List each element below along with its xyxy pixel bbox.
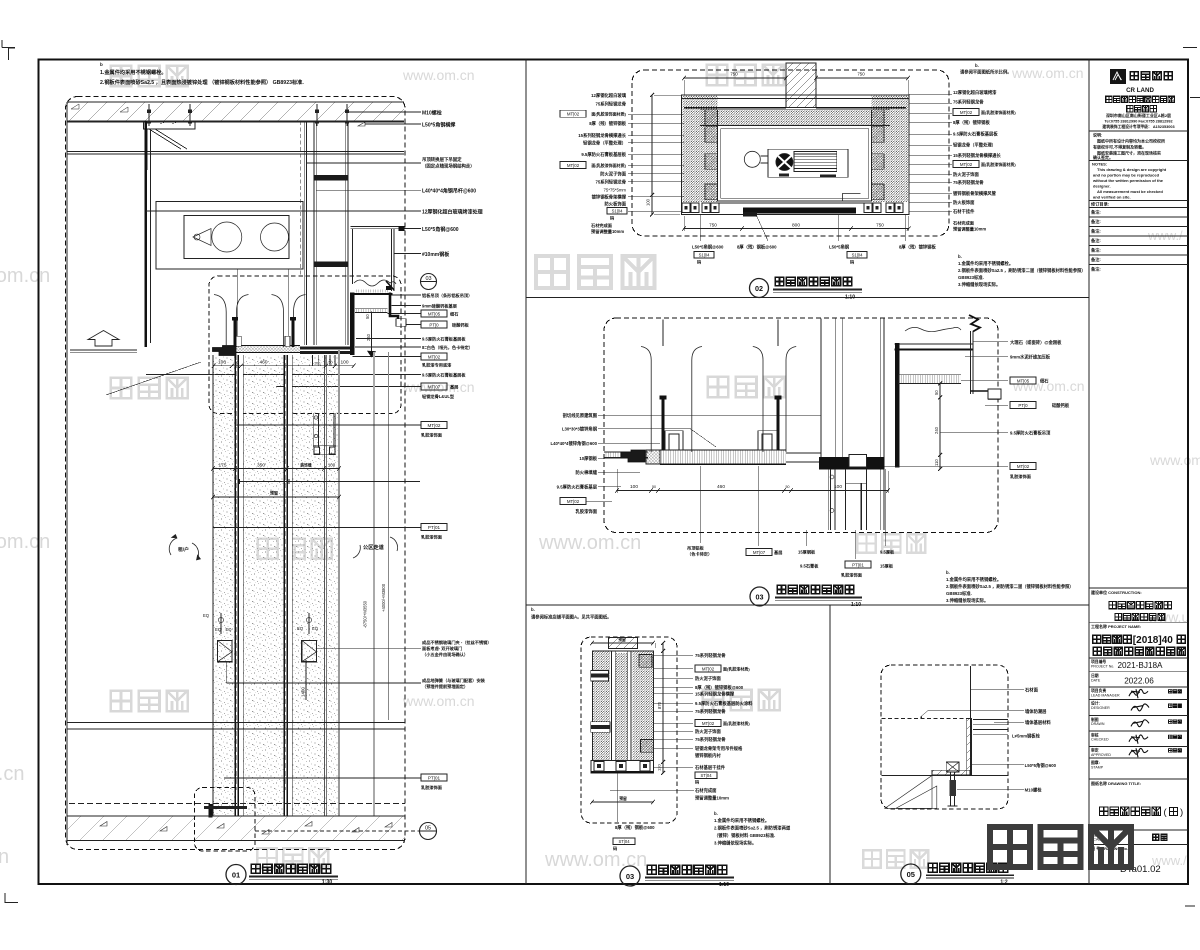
svg-text:确认签定。: 确认签定。 — [1093, 154, 1113, 160]
svg-text:50: 50 — [365, 314, 370, 319]
detail02 left leaders — [628, 113, 684, 115]
detail03m break glyph — [969, 315, 980, 332]
detail01 dim 1400 — [305, 660, 307, 700]
detail02 bottom band right boxes — [864, 203, 872, 213]
detail03m bottom labels — [699, 466, 701, 543]
svg-text:01: 01 — [232, 871, 240, 880]
svg-text:有版权许可,不得复制及转载。: 有版权许可,不得复制及转载。 — [1093, 144, 1146, 150]
svg-text:75*75*5mm: 75*75*5mm — [604, 188, 627, 193]
svg-text:03: 03 — [626, 872, 634, 881]
svg-text:日期: 日期 — [1091, 673, 1099, 678]
svg-text:S1|04: S1|04 — [852, 253, 864, 258]
svg-text:750: 750 — [709, 222, 717, 227]
svg-text:PT|01: PT|01 — [428, 525, 441, 530]
detail02 right leaders — [909, 93, 952, 95]
detail02 left wall — [683, 95, 718, 202]
svg-text:www.om.cn: www.om.cn — [402, 693, 475, 709]
svg-text:www.om.cn: www.om.cn — [1011, 65, 1084, 81]
detail03m bulkhead right step — [970, 331, 972, 394]
svg-text:03: 03 — [425, 276, 431, 282]
svg-text:1:10: 1:10 — [851, 602, 861, 608]
layout divider horizontal 2 — [526, 604, 1089, 606]
svg-text:100: 100 — [218, 360, 226, 366]
svg-text:防火泥子饰面: 防火泥子饰面 — [695, 728, 721, 735]
svg-text:（小五金件由现场确认）: （小五金件由现场确认） — [422, 651, 468, 658]
svg-text:750: 750 — [857, 72, 865, 77]
detail03m hanger rods upper — [662, 320, 664, 347]
svg-text:b.: b. — [946, 570, 950, 575]
svg-text:图章:: 图章: — [1091, 760, 1100, 765]
svg-text:1.金属件均采用不锈钢螺栓。: 1.金属件均采用不锈钢螺栓。 — [714, 817, 769, 824]
svg-text:防火泥子饰面: 防火泥子饰面 — [953, 171, 979, 178]
svg-text:S1|04: S1|04 — [699, 253, 711, 258]
svg-text:图纸中所有设计内容均为本公司校权所: 图纸中所有设计内容均为本公司校权所 — [1097, 138, 1165, 144]
detail05 leader stone face — [971, 689, 1024, 691]
svg-text:9.5厚防火石膏板基层板: 9.5厚防火石膏板基层板 — [953, 131, 998, 138]
detail01 label L50 brace — [358, 122, 365, 126]
company name beijing — [1106, 96, 1112, 102]
detail02 bottom band left boxes — [682, 203, 690, 213]
svg-text:240: 240 — [366, 333, 371, 341]
svg-text:2.钢板件表面喷砂Sa2.5 ，刷防锈漆二道（镀锌钢板材料性: 2.钢板件表面喷砂Sa2.5 ，刷防锈漆二道（镀锌钢板材料性能参照） — [958, 267, 1086, 274]
svg-text:PT|01: PT|01 — [852, 562, 864, 567]
svg-text:硅酸钙板: 硅酸钙板 — [1052, 402, 1070, 409]
detail01 ceiling void lines — [67, 151, 404, 153]
svg-text:1:10: 1:10 — [845, 295, 855, 301]
svg-text:防火板饰面: 防火板饰面 — [953, 199, 975, 206]
svg-text:2022.06: 2022.06 — [1124, 677, 1154, 686]
svg-text:轻钢龙骨（平整处理）: 轻钢龙骨（平整处理） — [583, 140, 626, 147]
detail03m band left cap — [621, 450, 645, 462]
svg-text:50: 50 — [235, 361, 239, 365]
svg-text:APPROVED: APPROVED — [1091, 753, 1111, 757]
detail01 tick strip 50 — [355, 309, 388, 313]
detail01 wall main vertical — [145, 121, 147, 347]
svg-text:MT|02: MT|02 — [702, 666, 715, 671]
svg-text:350: 350 — [257, 462, 265, 468]
detail01 dim reserved — [213, 496, 339, 498]
detail01 M10 hanger bolts — [148, 104, 150, 126]
svg-text:石材干挂件: 石材干挂件 — [952, 208, 975, 215]
svg-text:1:30: 1:30 — [322, 880, 332, 886]
detail03m bulkhead top lines — [895, 343, 974, 345]
svg-text:9.5石膏板: 9.5石膏板 — [800, 563, 819, 570]
svg-text:www.om.cn: www.om.cn — [544, 849, 647, 871]
svg-text:制图: 制图 — [1091, 717, 1099, 722]
detail03b left brackets — [591, 671, 609, 682]
svg-text:100: 100 — [834, 484, 842, 490]
watermark row1 — [111, 66, 132, 87]
detail03m title — [750, 587, 769, 606]
detail01 cove curve pair 1 — [214, 295, 226, 348]
svg-text:PT|01: PT|01 — [428, 775, 441, 780]
svg-text:石材完成面: 石材完成面 — [952, 220, 975, 227]
svg-text:100: 100 — [328, 462, 336, 467]
detail02 bottom labels — [699, 215, 701, 242]
svg-text:装饰缝: 装饰缝 — [299, 462, 312, 467]
svg-text:镀锌钢板骨架横撑风管: 镀锌钢板骨架横撑风管 — [953, 190, 997, 197]
svg-text:MT|07: MT|07 — [753, 550, 766, 555]
svg-text:NOTES:: NOTES: — [1092, 162, 1107, 167]
svg-text:12厚钢化超白玻璃烤漆处理: 12厚钢化超白玻璃烤漆处理 — [422, 209, 483, 216]
svg-text:PROJECT No.: PROJECT No. — [1091, 665, 1114, 669]
svg-text:and no portion may be reproduc: and no portion may be reproduced — [1093, 173, 1160, 178]
svg-text:75系列轻钢龙骨: 75系列轻钢龙骨 — [695, 652, 726, 659]
svg-text:PT|0: PT|0 — [1018, 403, 1028, 408]
svg-text:1.金属件均采用不锈钢螺栓。: 1.金属件均采用不锈钢螺栓。 — [958, 260, 1013, 267]
drawing number row — [1089, 844, 1188, 846]
svg-text:8厚（残）镀锌钢板: 8厚（残）镀锌钢板 — [589, 120, 626, 127]
detail05 title — [901, 864, 921, 884]
detail01 balloon 05 leader — [255, 830, 420, 832]
detail03m bulkhead vertical dark — [895, 343, 900, 468]
svg-text:面(乳胶漆材质): 面(乳胶漆材质) — [723, 720, 750, 726]
detail01 corridor rotation symbol — [353, 545, 360, 558]
detail05 M10 label — [957, 788, 1024, 790]
svg-text:防火棉填缝: 防火棉填缝 — [576, 469, 598, 476]
detail01 glazing base shoe — [209, 804, 213, 818]
detail03m vertical dim — [939, 384, 941, 470]
svg-text:面(乳胶漆饰面材质): 面(乳胶漆饰面材质) — [591, 162, 626, 168]
svg-text:b.: b. — [714, 811, 718, 816]
detail03b stone leader — [610, 789, 694, 791]
svg-text:75系列轻钢龙骨: 75系列轻钢龙骨 — [953, 179, 984, 186]
svg-text:L40*40*4镀锌角钢@600: L40*40*4镀锌角钢@600 — [551, 440, 598, 447]
svg-text:乳胶漆饰面: 乳胶漆饰面 — [421, 784, 443, 791]
svg-text:15厚板: 15厚板 — [880, 563, 894, 570]
detail01 callout boundary dashed — [66, 97, 406, 850]
svg-text:项目负责: 项目负责 — [1091, 688, 1106, 693]
svg-text:EQ: EQ — [203, 613, 210, 618]
svg-text:02: 02 — [755, 284, 763, 293]
svg-text:预留: 预留 — [270, 490, 278, 496]
detail01 return staircase profile — [390, 293, 405, 325]
detail01 title — [226, 865, 246, 885]
svg-text:www./: www./ — [1147, 228, 1183, 243]
svg-text:All measurement must be checke: All measurement must be checked — [1097, 189, 1163, 194]
svg-text:DESIGNER: DESIGNER — [1091, 706, 1110, 710]
signature rows — [1089, 686, 1188, 688]
svg-text:1:10: 1:10 — [719, 882, 729, 888]
svg-text:公区走道: 公区走道 — [363, 543, 385, 551]
svg-text:基层: 基层 — [449, 383, 459, 390]
svg-text:MT|02: MT|02 — [702, 721, 715, 726]
svg-text:剖切线见原建筑图: 剖切线见原建筑图 — [563, 412, 598, 419]
svg-text:STAMP: STAMP — [1091, 766, 1104, 770]
svg-text:LEAD MANAGER: LEAD MANAGER — [1091, 694, 1120, 698]
detail02 inner room — [718, 126, 872, 202]
svg-text:b.: b. — [958, 254, 962, 259]
svg-text:石材基层干挂件: 石材基层干挂件 — [694, 764, 726, 771]
svg-text:460: 460 — [717, 484, 725, 490]
svg-text:乳胶漆饰面: 乳胶漆饰面 — [841, 572, 863, 579]
svg-text:面(乳胶漆材质): 面(乳胶漆材质) — [723, 665, 750, 671]
detail01 concrete column stipple — [213, 355, 339, 816]
detail01 door head track — [312, 413, 314, 447]
svg-text:L50*5角钢@600: L50*5角钢@600 — [692, 244, 724, 251]
svg-text:CR LAND: CR LAND — [1126, 87, 1154, 94]
detail03m column — [820, 319, 822, 457]
detail05 dashed callout — [881, 665, 1008, 809]
detail01 slab hatch — [67, 102, 404, 121]
svg-text:MT|02: MT|02 — [567, 163, 580, 168]
svg-text:b.: b. — [975, 63, 979, 68]
detail03m dashed callout — [604, 318, 998, 533]
detail01 AC fan coil unit — [156, 202, 303, 270]
svg-text:工程名称 PROJECT NAME:: 工程名称 PROJECT NAME: — [1091, 623, 1141, 629]
svg-text:乳胶漆饰面: 乳胶漆饰面 — [576, 508, 598, 515]
svg-text:100: 100 — [646, 198, 651, 206]
svg-text:b.: b. — [531, 607, 535, 612]
detail01 ceiling band crosshatch — [236, 346, 300, 353]
svg-text:Tel:0755 28812990 Fax:0755 28: Tel:0755 28812990 Fax:0755 28812992 — [1104, 120, 1172, 124]
layout divider vertical bottom — [829, 605, 831, 884]
svg-text:预留调整量10mm: 预留调整量10mm — [591, 228, 624, 235]
detail03m door section below column — [827, 469, 829, 530]
layout divider titleblock — [1088, 60, 1090, 885]
svg-text:MT|07: MT|07 — [428, 384, 441, 389]
svg-text:轻钢龙骨（平整处理）: 轻钢龙骨（平整处理） — [953, 142, 996, 149]
detail01 storefront return top — [351, 225, 404, 227]
svg-text:EQ: EQ — [312, 626, 319, 631]
svg-text:石材完成面: 石材完成面 — [590, 222, 613, 229]
detail01 floor hatch band — [67, 816, 405, 841]
svg-text:M10螺栓: M10螺栓 — [422, 110, 442, 117]
svg-text:9.5厚板: 9.5厚板 — [880, 549, 895, 556]
svg-text:50: 50 — [786, 485, 790, 489]
svg-text:石材面: 石材面 — [1024, 687, 1039, 694]
svg-text:8厚（残）钢板@600: 8厚（残）钢板@600 — [615, 824, 655, 831]
layout divider vertical main — [525, 60, 527, 885]
detail01 mid floor double line — [67, 722, 405, 724]
detail01 glass leader — [239, 481, 420, 483]
svg-text:MT|02: MT|02 — [567, 112, 580, 117]
svg-text:): ) — [1180, 807, 1183, 818]
svg-text:15系列轻钢龙骨横撑: 15系列轻钢龙骨横撑 — [695, 691, 735, 698]
svg-text:03: 03 — [756, 593, 764, 602]
detail01 sealant squiggle — [354, 280, 396, 286]
corner marks — [2, 47, 15, 49]
svg-text:9.5厚防火石膏板基层防火涂料: 9.5厚防火石膏板基层防火涂料 — [695, 700, 753, 707]
detail01 base dashed line — [69, 803, 405, 805]
svg-text:修订目录:: 修订目录: — [1090, 201, 1109, 208]
svg-text:designer.: designer. — [1093, 184, 1111, 189]
watermark row3 — [111, 378, 132, 399]
svg-text:（固定点随现场钢结构走）: （固定点随现场钢结构走） — [422, 163, 475, 170]
svg-text:备注:: 备注: — [1091, 247, 1101, 254]
svg-text:（镀锌）钢板材料 GB8923标准.: （镀锌）钢板材料 GB8923标准. — [714, 832, 775, 839]
svg-text:CHECKED: CHECKED — [1091, 738, 1109, 742]
svg-text:240: 240 — [934, 426, 939, 434]
titleblock hline 1 — [1089, 130, 1188, 132]
svg-text:2021-BJ18A: 2021-BJ18A — [1117, 661, 1163, 670]
svg-text:EQ: EQ — [297, 626, 304, 631]
detail01 below-band track boxes — [312, 355, 314, 366]
construction row — [1089, 587, 1188, 589]
detail03m tick strip — [898, 375, 961, 384]
detail03b right dim — [662, 643, 664, 773]
project number row — [1089, 657, 1188, 659]
svg-text:租/户: 租/户 — [178, 546, 189, 553]
svg-text:8厚（残）镀锌钢板: 8厚（残）镀锌钢板 — [899, 244, 936, 251]
detail01 ceiling band left cap — [213, 346, 237, 356]
detail03m bottom dim — [617, 490, 888, 492]
svg-text:05: 05 — [907, 870, 915, 879]
svg-text:防火泥子饰面: 防火泥子饰面 — [600, 171, 626, 178]
detail01 cove curve pair 2 — [272, 295, 284, 348]
svg-text:备注:: 备注: — [1091, 256, 1101, 263]
detail01 label M10 — [347, 111, 421, 113]
svg-text:#10mm钢板: #10mm钢板 — [422, 251, 450, 258]
svg-text:建设单位 CONSTRUCTION:: 建设单位 CONSTRUCTION: — [1091, 589, 1142, 595]
svg-text:9.5厚防火石膏板基层板: 9.5厚防火石膏板基层板 — [422, 336, 466, 343]
detail01 door leaf boxes — [217, 640, 232, 661]
detail01 vertical dim 240 — [371, 312, 373, 352]
detail03b right leaders — [653, 654, 693, 656]
svg-text:750: 750 — [730, 72, 738, 77]
svg-text:3.伸缩缝依现场实际。: 3.伸缩缝依现场实际。 — [946, 597, 988, 604]
detail02 bottom glazing dark band — [719, 202, 864, 204]
svg-text:预留: 预留 — [619, 796, 627, 801]
svg-text:2.钢板件表面喷砂Sa2.5 ，刷防锈漆二道（镀锌钢板材料性: 2.钢板件表面喷砂Sa2.5 ，刷防锈漆二道（镀锌钢板材料性能参照） — [946, 583, 1074, 590]
detail03m stud boxes above band — [665, 431, 683, 450]
svg-text:2.钢板件表面喷砂Sa2.5 ，刷防锈漆两道: 2.钢板件表面喷砂Sa2.5 ，刷防锈漆两道 — [714, 825, 791, 832]
svg-text:备注:: 备注: — [1091, 209, 1101, 216]
svg-text:石材完成面: 石材完成面 — [694, 787, 717, 794]
detail01 glazing lines — [212, 355, 214, 816]
detail02 S1-04 box left — [607, 208, 627, 215]
detail02 title — [750, 279, 769, 298]
svg-text:L50*5角钢横撑: L50*5角钢横撑 — [422, 122, 455, 129]
scale row — [1089, 829, 1188, 831]
detail03m right labels — [973, 341, 1008, 343]
svg-text:面(乳胶漆饰面材质): 面(乳胶漆饰面材质) — [591, 111, 626, 117]
detail03b top dim — [592, 642, 653, 644]
svg-text:www.om.cn: www.om.cn — [0, 531, 50, 553]
detail05 bolt — [946, 762, 959, 772]
svg-text:75系列轻钢龙骨: 75系列轻钢龙骨 — [695, 736, 726, 743]
svg-text:吊顶转换层下吊固定: 吊顶转换层下吊固定 — [422, 156, 462, 163]
detail05 floor line — [882, 775, 1008, 777]
svg-text:om.cn: om.cn — [0, 763, 24, 785]
svg-text:9mm水泥纤维加压板: 9mm水泥纤维加压板 — [1010, 354, 1051, 361]
detail03b bottom dim — [592, 801, 653, 803]
svg-text:12厚钢化超白玻璃烤漆: 12厚钢化超白玻璃烤漆 — [953, 89, 997, 96]
detail01 MT02 label mid — [236, 424, 421, 426]
detail01 tenant rotation symbol — [169, 538, 177, 555]
detail02 dashed callout — [632, 70, 949, 236]
svg-text:175: 175 — [218, 462, 226, 468]
detail01 door labels right — [316, 647, 421, 649]
svg-text:MT|02: MT|02 — [428, 354, 441, 359]
detail01 storefront frame dark bar — [350, 293, 355, 356]
svg-text:L50*5角钢: L50*5角钢 — [829, 244, 850, 251]
svg-text:12厚钢化超白玻璃: 12厚钢化超白玻璃 — [591, 92, 627, 99]
svg-text:EQ: EQ — [226, 627, 233, 632]
detail02 top wall stipple — [700, 110, 890, 126]
svg-text:细石: 细石 — [450, 310, 458, 317]
detail05 dashed finish line — [882, 717, 971, 719]
detail03m band right extension — [786, 452, 821, 454]
svg-text:50: 50 — [329, 361, 333, 365]
svg-text:预留调整量10mm: 预留调整量10mm — [953, 226, 986, 233]
layout divider horizontal 1 — [526, 297, 1089, 299]
svg-text:MT|05: MT|05 — [428, 311, 441, 316]
titleblock revision rows — [1089, 200, 1188, 202]
svg-text:100: 100 — [630, 484, 638, 490]
titleblock hline 2 — [1089, 160, 1188, 162]
svg-text:1.金属件均采用不锈钢螺栓。: 1.金属件均采用不锈钢螺栓。 — [946, 576, 1001, 583]
detail05 wall vertical line — [970, 666, 972, 775]
svg-text:1:2: 1:2 — [1000, 880, 1007, 886]
detail03b bottom drop leader — [616, 773, 618, 822]
detail01 dim line top of column — [214, 365, 354, 367]
detail01 label L50 600 — [400, 228, 421, 230]
svg-text:www.om: www.om — [1149, 452, 1200, 468]
detail03b bottom band — [591, 760, 654, 773]
detail03b wall band — [592, 651, 653, 762]
detail03m main band insulation — [660, 450, 786, 464]
svg-text:吊顶铝板: 吊顶铝板 — [687, 545, 705, 552]
detail02 plan outer rect — [682, 95, 909, 215]
svg-text:设计:: 设计: — [1091, 701, 1100, 706]
svg-text:110: 110 — [934, 459, 939, 466]
svg-text:防火泥子饰面: 防火泥子饰面 — [695, 675, 721, 682]
svg-text:75系列轻钢龙骨: 75系列轻钢龙骨 — [595, 101, 626, 108]
svg-text:8厚（残）镀锌钢板@600: 8厚（残）镀锌钢板@600 — [695, 684, 744, 691]
svg-text:9.5厚防火石膏板基层板: 9.5厚防火石膏板基层板 — [422, 372, 466, 379]
svg-text:www.om.cn: www.om.cn — [402, 67, 475, 83]
detail03b column stub — [609, 638, 638, 649]
svg-text:备注:: 备注: — [1091, 218, 1101, 225]
svg-text:75系列轻钢龙骨: 75系列轻钢龙骨 — [695, 708, 726, 715]
svg-text:DATE: DATE — [1091, 679, 1101, 683]
svg-text:100: 100 — [340, 360, 348, 366]
svg-text:+4000/+M3800: +4000/+M3800 — [381, 583, 386, 612]
detail02 top glazing band — [682, 98, 909, 100]
detail02 fan coil unit plan — [768, 149, 848, 177]
detail03b dashed callout — [581, 637, 677, 823]
detail01 balloon 03 — [421, 274, 437, 290]
svg-text:75系列轻钢龙骨: 75系列轻钢龙骨 — [595, 179, 626, 186]
detail01 diagonal section leader — [106, 362, 201, 395]
svg-text:ST|04: ST|04 — [618, 839, 630, 844]
svg-text:建筑装饰工程设计专项甲级： A152353003: 建筑装饰工程设计专项甲级： A152353003 — [1101, 124, 1174, 129]
svg-text:面(乳胶漆饰面材质): 面(乳胶漆饰面材质) — [981, 109, 1016, 115]
svg-text:100: 100 — [314, 362, 320, 366]
svg-text:细石: 细石 — [1040, 377, 1049, 384]
svg-text:成品不锈钢玻璃门夹 -（拉丝不锈钢）: 成品不锈钢玻璃门夹 -（拉丝不锈钢） — [422, 639, 492, 646]
CR LAND logo — [1110, 69, 1126, 84]
svg-text:审核: 审核 — [1091, 732, 1099, 737]
detail02 bottom dim — [684, 228, 909, 230]
svg-text:b: b — [100, 62, 103, 67]
svg-text:L50*5角钢@600: L50*5角钢@600 — [1025, 762, 1057, 769]
svg-text:www.om.cn: www.om.cn — [538, 532, 641, 554]
date row — [1089, 671, 1188, 673]
svg-text:防火板饰面: 防火板饰面 — [605, 201, 627, 208]
detail01 return horizontal dark — [353, 293, 393, 295]
svg-text:ST|04: ST|04 — [700, 773, 712, 778]
svg-text:请参阅标准店铺平面图A。见共平面图纸。: 请参阅标准店铺平面图A。见共平面图纸。 — [531, 614, 611, 621]
svg-text:GB8923标准.: GB8923标准. — [958, 274, 984, 281]
svg-text:750: 750 — [876, 222, 884, 227]
svg-text:面板考虑- 双开玻璃门: 面板考虑- 双开玻璃门 — [422, 645, 462, 652]
svg-text:S1|04: S1|04 — [612, 209, 624, 214]
svg-text:-8750/+M3550: -8750/+M3550 — [362, 600, 367, 628]
svg-text:（预埋件提前预埋固定）: （预埋件提前预埋固定） — [422, 683, 468, 690]
svg-text:3.伸缩缝依现场实际。: 3.伸缩缝依现场实际。 — [714, 840, 756, 847]
